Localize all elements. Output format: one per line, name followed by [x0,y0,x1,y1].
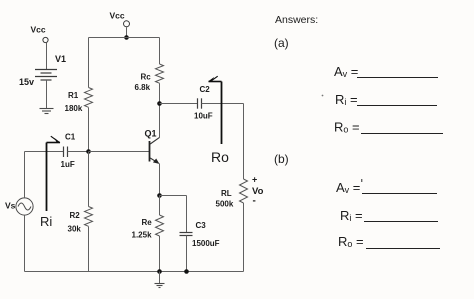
svg-text:Vcc: Vcc [31,25,46,35]
source Vs [16,198,33,215]
wire top rail [89,37,160,39]
answer b Ri blank line [364,221,438,223]
svg-text:500k: 500k [216,200,234,209]
junction C3 ground [184,269,189,274]
svg-text:1500uF: 1500uF [192,239,220,248]
svg-text:1uF: 1uF [61,160,75,169]
svg-text:Ro: Ro [211,149,229,165]
wire R1 top [88,38,90,88]
resistor RL [240,179,248,203]
stray mark speck [322,95,324,97]
battery V1 terminal circle [43,37,48,42]
junction base node [86,149,91,154]
capacitor C3 [180,233,193,236]
Vcc terminal circle on top rail [124,21,130,27]
wire C1 to base node [68,151,89,153]
wire bottom rail [25,271,244,273]
svg-text:R2: R2 [70,211,81,220]
svg-text:(b): (b) [274,152,289,166]
junction collector node [157,101,162,106]
wire Vcc stub [126,27,128,37]
wire Rc top [159,38,161,65]
wire Vs top [24,152,26,198]
wire C3 top [186,196,188,233]
svg-text:Vcc: Vcc [110,11,125,21]
svg-text:Re: Re [142,218,153,227]
svg-text:-: - [253,196,256,207]
wire C3 bottom [186,236,188,272]
junction Vcc on top rail [124,35,129,40]
svg-text:C1: C1 [65,133,76,142]
capacitor C1 [64,147,68,158]
svg-text:C2: C2 [200,85,211,94]
svg-text:10uF: 10uF [194,112,213,121]
svg-text:Ri =: Ri = [340,208,363,223]
svg-text:Q1: Q1 [145,129,157,139]
svg-text:Rc: Rc [141,73,152,82]
svg-text:1.25k: 1.25k [132,231,153,240]
battery V1 plates [35,70,57,81]
wire Vs bottom [24,215,26,271]
wire ground stub [159,272,161,284]
answer b Av blank line [362,193,437,195]
junction emitter ground [157,269,162,274]
resistor Re [156,215,164,236]
svg-text:RL: RL [221,189,232,198]
probe arrow Ro [208,76,221,144]
wire battery top [46,43,48,70]
svg-text:V1: V1 [55,54,66,64]
wire collector [159,104,161,138]
wire Rc bottom [159,83,161,103]
svg-text:C3: C3 [196,221,207,230]
svg-text:Vs: Vs [5,201,16,211]
svg-text:R1: R1 [68,91,79,100]
ground (battery) [40,109,54,114]
answer a Ri blank line [357,105,437,107]
svg-text:Answers:: Answers: [275,14,318,26]
wire emitter [159,163,161,195]
svg-text:+: + [252,175,257,185]
answer a Ro blank line [361,133,443,135]
wire C2 to RL branch [202,103,244,105]
svg-text:Av =: Av = [336,180,360,195]
svg-text:15v: 15v [19,77,34,87]
wire collector node to C2 [160,103,198,105]
wire base [89,151,150,153]
svg-text:30k: 30k [68,225,82,234]
svg-text:(a): (a) [274,36,289,50]
wire R2 top [88,152,90,207]
svg-text:Av =: Av = [334,64,358,79]
resistor R2 [85,207,93,227]
probe arrow Ri [47,136,61,211]
wire R1 bottom to base node [88,108,90,152]
svg-text:6.8k: 6.8k [135,83,151,92]
resistor R1 [85,88,93,108]
stray mark apostrophe [361,179,362,182]
wire input left [25,151,64,153]
svg-text:Ri: Ri [40,214,52,229]
ground (emitter) [155,284,165,288]
junction emitter node [157,193,162,198]
wire RL bottom [243,203,245,272]
wire Re bottom [159,236,161,272]
wire emitter node to C3 [160,195,187,197]
svg-text:180k: 180k [65,104,83,113]
wire RL top [243,104,245,180]
svg-text:Ri =: Ri = [335,92,358,107]
wire Re top [159,196,161,216]
answer a Av blank line [357,77,438,79]
capacitor C2 [198,98,202,108]
resistor Rc [156,64,164,83]
answer b Ro blank line [366,248,440,250]
transistor Q1 [150,137,160,164]
wire battery bottom [46,80,48,109]
wire R2 bottom [88,227,90,272]
